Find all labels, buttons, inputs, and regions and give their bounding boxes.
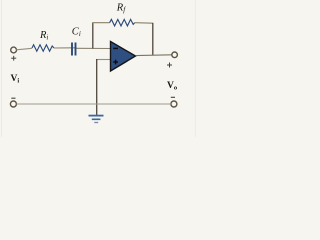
wire input terminal to resistor Ri (16, 48, 32, 50)
terminal output + (top-right open circle) (172, 52, 178, 58)
wire Ci to op-amp inverting input (77, 47, 111, 49)
op-amp U1 triangle (111, 42, 136, 72)
resistor Rf (zigzag) (110, 19, 135, 26)
op-amp U1 inverting pin minus symbol (113, 47, 118, 49)
terminal input + (top-left open circle) (11, 47, 17, 53)
plus sign at output terminal (167, 63, 172, 68)
ground symbol (89, 116, 104, 123)
wire output from op-amp to output terminal (136, 54, 172, 57)
resistor Ri (zigzag) (32, 45, 54, 51)
wire feedback right vertical down to output (152, 23, 154, 55)
wire feedback left vertical (node A up) (92, 23, 94, 49)
wire noninverting input horizontal (96, 59, 111, 61)
minus sign above bottom-right terminal (171, 96, 175, 98)
capacitor Ci (two plates) (72, 43, 76, 56)
op-amp U1 noninverting pin plus symbol (113, 60, 118, 65)
wire feedback top right segment (135, 22, 154, 25)
plus sign at input terminal (11, 56, 16, 61)
terminal output - (bottom-right open circle) (171, 101, 177, 107)
minus sign above bottom-left terminal (11, 97, 15, 99)
wire feedback top left segment (92, 22, 109, 24)
wire Ri to capacitor Ci (54, 47, 77, 49)
terminal input - (bottom-left open circle) (10, 101, 16, 107)
bottom rail wire (17, 103, 171, 105)
wire ground drop vertical (96, 59, 98, 115)
